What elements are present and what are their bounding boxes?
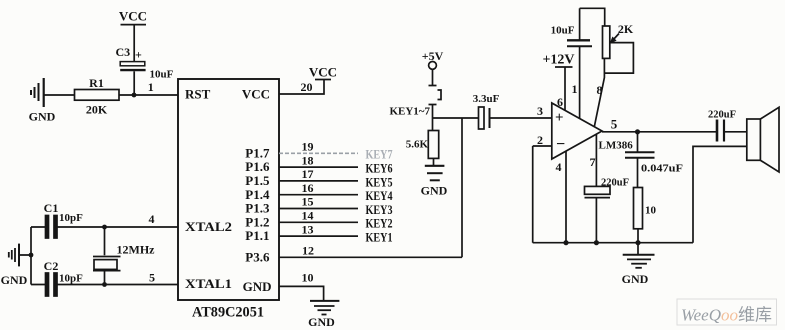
svg-text:10uF: 10uF [150,69,174,81]
svg-text:KEY7: KEY7 [366,147,393,162]
svg-text:12MHz: 12MHz [117,243,156,257]
svg-text:AT89C2051: AT89C2051 [192,305,264,321]
svg-text:5.6K: 5.6K [406,139,429,151]
svg-text:10: 10 [645,205,657,217]
svg-text:220uF: 220uF [601,178,629,189]
svg-text:P1.6: P1.6 [245,159,270,174]
svg-text:P1.3: P1.3 [245,201,270,216]
svg-text:KEY5: KEY5 [366,174,393,189]
svg-text:P1.4: P1.4 [245,187,270,202]
svg-text:LM386: LM386 [599,140,634,152]
svg-text:10pF: 10pF [59,212,83,224]
svg-text:P3.6: P3.6 [245,249,270,264]
svg-text:20: 20 [301,80,313,94]
svg-text:C3: C3 [116,45,131,59]
svg-text:0.047uF: 0.047uF [641,163,683,175]
svg-text:P1.7: P1.7 [245,145,270,160]
svg-text:2: 2 [537,133,543,147]
svg-text:16: 16 [302,181,314,195]
svg-text:KEY2: KEY2 [366,216,393,231]
svg-text:20K: 20K [86,103,108,117]
svg-text:−: − [556,136,565,153]
svg-text:P1.2: P1.2 [245,214,269,229]
svg-text:+5V: +5V [422,49,444,63]
svg-text:XTAL1: XTAL1 [185,276,232,291]
svg-text:7: 7 [590,155,596,169]
svg-text:R1: R1 [89,76,104,90]
svg-text:KEY4: KEY4 [366,188,393,203]
svg-text:1: 1 [572,82,578,96]
svg-text:C1: C1 [44,201,59,215]
svg-text:13: 13 [302,222,314,236]
svg-text:220uF: 220uF [708,110,736,121]
svg-text:C2: C2 [44,259,59,273]
svg-text:5: 5 [611,117,618,132]
svg-text:3: 3 [537,104,543,118]
svg-text:+12V: +12V [542,53,574,68]
svg-text:GND: GND [421,184,448,198]
svg-text:KEY6: KEY6 [366,161,393,176]
svg-text:KEY1: KEY1 [366,230,393,245]
svg-text:5: 5 [149,271,155,285]
svg-text:3.3uF: 3.3uF [473,93,500,105]
svg-text:4: 4 [556,160,562,174]
svg-text:2K: 2K [618,22,634,36]
svg-text:GND: GND [29,110,56,124]
svg-text:19: 19 [302,140,314,154]
svg-text:WeeQoo维库: WeeQoo维库 [681,306,772,325]
svg-text:14: 14 [302,209,314,223]
svg-text:GND: GND [622,272,649,286]
svg-text:6: 6 [557,95,563,109]
svg-text:+: + [135,48,142,62]
svg-text:18: 18 [302,153,314,167]
svg-text:GND: GND [243,279,272,294]
svg-text:12: 12 [302,244,314,258]
svg-text:VCC: VCC [242,87,270,102]
svg-text:GND: GND [1,273,28,287]
svg-text:15: 15 [302,195,314,209]
svg-text:8: 8 [597,83,603,97]
svg-text:P1.1: P1.1 [245,228,269,243]
svg-text:RST: RST [185,87,211,102]
svg-text:10: 10 [302,271,314,285]
svg-text:10uF: 10uF [551,25,575,37]
svg-text:4: 4 [149,212,155,226]
svg-text:+: + [555,110,564,126]
svg-text:1: 1 [148,80,154,94]
svg-text:GND: GND [308,315,335,329]
svg-text:10pF: 10pF [59,273,83,285]
svg-text:KEY3: KEY3 [366,202,393,217]
svg-text:KEY1~7: KEY1~7 [389,106,430,118]
svg-text:P1.5: P1.5 [245,173,270,188]
svg-text:VCC: VCC [309,65,337,80]
svg-text:17: 17 [302,167,314,181]
svg-text:VCC: VCC [119,9,147,24]
svg-text:XTAL2: XTAL2 [185,219,232,234]
